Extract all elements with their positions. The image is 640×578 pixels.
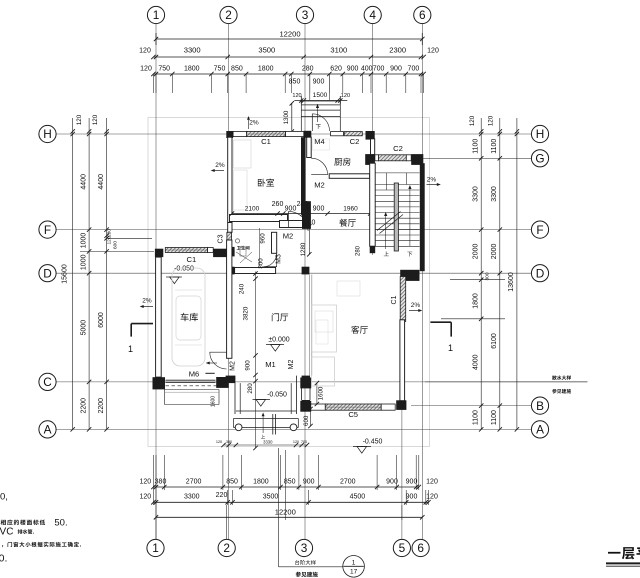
svg-text:3300: 3300 [184,494,200,501]
svg-text:1: 1 [152,541,159,555]
svg-text:2000: 2000 [491,244,498,260]
left dim chain ticks [87,129,91,133]
svg-text:1300: 1300 [283,110,290,124]
bathroom east wall [272,232,277,253]
column living SW bottom [300,401,311,412]
left ext line garage top [80,250,154,252]
svg-text:1: 1 [153,8,160,22]
svg-text:A: A [536,423,544,437]
label living [351,326,359,334]
grid line D horizontal [57,272,532,274]
grid bubble 3 bottom [295,539,312,556]
window C1 living east [400,277,406,322]
svg-text:120: 120 [92,114,99,125]
grid bubble A left [39,421,56,438]
dim line row1 bottom [153,486,418,488]
svg-text:M3: M3 [276,254,283,264]
garage east wall [227,240,232,358]
dim line porch 120 1500 120 [294,100,347,102]
svg-text:1100: 1100 [491,410,498,425]
label xia stair [407,252,412,257]
grid bubble A right [531,421,548,438]
grid bubble 3 top [296,6,313,23]
svg-text:3: 3 [301,541,308,555]
svg-text:380: 380 [226,440,232,444]
svg-text:H: H [43,127,52,141]
svg-text:850: 850 [289,79,301,86]
column stair NE [411,154,423,165]
svg-text:4000: 4000 [473,354,480,370]
svg-text:2%: 2% [142,298,152,305]
svg-text:4500: 4500 [350,494,366,501]
svg-text:3820: 3820 [243,306,250,320]
svg-text:900: 900 [406,479,418,486]
garage west wall [156,257,162,377]
svg-text:900: 900 [406,494,418,501]
svg-text:280: 280 [107,229,113,237]
kitchen west wall upper [307,137,312,157]
grid bubble 2 bottom [218,539,235,556]
svg-text:120: 120 [292,93,301,99]
garage door M6 [166,379,216,381]
living east wall lower [400,320,405,401]
grid bubble 6 bottom [412,539,429,556]
svg-text:120: 120 [426,479,438,486]
dim line bedroom interior [232,213,308,215]
svg-text:2000: 2000 [473,244,480,260]
bedroom east wall [301,137,306,214]
hall dim ticks [253,271,257,275]
hall dim vline [255,272,257,449]
svg-text:1100: 1100 [491,139,498,154]
column living SW top [300,378,311,389]
svg-text:C5: C5 [348,410,358,419]
svg-text:2: 2 [223,541,230,555]
svg-text:C1: C1 [261,137,271,146]
right ext line 300 [450,279,505,281]
svg-text:2200: 2200 [81,398,88,414]
column garage NE [213,249,227,257]
svg-text:H: H [536,127,545,141]
note sanshui text [552,375,557,380]
svg-text:120: 120 [139,479,151,486]
kitchen counter faint [313,139,330,150]
hall-living boundary line [309,275,311,376]
label garage [181,313,189,322]
svg-text:700: 700 [373,66,385,73]
svg-text:380: 380 [155,479,167,486]
porch down arrow [317,104,319,122]
window C2 entry north [344,132,362,136]
svg-text:A: A [44,423,52,437]
porch up arrow [262,414,264,433]
sill west C1 bedroom [233,131,246,136]
column at grid3/H [304,131,312,138]
grid bubble D left [39,265,56,282]
svg-text:300: 300 [485,272,491,280]
dim line 12200 top [156,38,422,40]
svg-text:900: 900 [386,479,398,486]
column at grid2/H [226,131,233,138]
svg-text:120: 120 [139,48,151,55]
svg-text:C2: C2 [393,144,403,153]
svg-text:6000: 6000 [98,312,105,328]
svg-text:15600: 15600 [62,264,69,284]
sill east garage C1 [208,248,214,253]
label shang stair [384,251,389,256]
dim line 600 living [310,409,312,426]
svg-text:1800: 1800 [184,66,200,73]
stair down arrow [409,187,411,246]
section marker 1 left [131,323,153,325]
svg-text:120: 120 [76,114,83,125]
svg-text:C1: C1 [187,255,197,264]
svg-text:D: D [43,266,52,280]
note sanshui line [425,381,588,383]
svg-text:1600: 1600 [211,396,217,407]
svg-text:C: C [43,375,52,389]
column at grid4/H [366,131,375,140]
svg-text:620: 620 [330,66,342,73]
column porch SW [226,376,235,384]
svg-text:900: 900 [313,206,325,213]
svg-text:3100: 3100 [330,46,347,55]
svg-text:2%: 2% [249,120,259,127]
svg-text:1: 1 [448,343,453,353]
svg-text:0,: 0, [0,492,8,503]
car outline faint [172,268,205,366]
bedroom south wall [230,215,288,222]
grid line 6 vertical [421,24,423,540]
svg-text:M6: M6 [189,370,200,379]
dim line dining 1960 [328,213,371,215]
label bathroom tiny [237,246,241,250]
right dim chain ticks [479,129,483,133]
svg-text:2: 2 [225,8,232,22]
living furniture faint [312,305,337,352]
svg-text:C1: C1 [391,295,398,304]
column at D grid3 [302,267,310,275]
svg-text:-0.450: -0.450 [363,439,383,446]
label hall [272,313,279,321]
svg-text:700: 700 [301,440,307,444]
column porch SE top [302,376,310,384]
extension lines below row3 [152,74,154,93]
svg-text:M4: M4 [314,137,325,146]
entry threshold piece [331,132,344,136]
svg-text:600: 600 [303,415,310,426]
svg-text:240: 240 [239,283,246,294]
svg-text:5000: 5000 [81,320,88,336]
svg-text:120: 120 [293,440,299,444]
svg-text:4: 4 [369,8,376,22]
svg-text:B: B [536,399,544,413]
svg-text:VC: VC [0,527,13,538]
label xia porch [316,124,321,129]
bedroom wardrobe faint [234,140,252,168]
roof overhang outline (faint) [148,118,430,447]
grid bubble F right [531,221,548,238]
grid bubble H right [531,125,548,142]
dim line hall 900 [308,213,328,215]
svg-text:280: 280 [247,383,254,394]
bedroom south wall step [280,221,304,228]
grid bubble F left [39,221,56,238]
detail bubble 1/17 [343,556,365,578]
grid bubble 1 bottom [147,539,164,556]
label step detail [295,560,299,565]
svg-text:C2: C2 [350,137,360,146]
svg-text:1500: 1500 [313,92,328,99]
grid bubble C left [39,373,56,390]
svg-text:1100: 1100 [473,139,480,154]
svg-text:2100: 2100 [245,206,260,213]
window C1 garage north [165,248,207,253]
leader line step detail [278,448,280,567]
svg-text:6: 6 [417,541,424,555]
column living SE [396,400,406,410]
left dim chain lines [72,118,74,429]
label bedroom [258,179,266,187]
svg-text:-0.050: -0.050 [267,392,287,399]
svg-text:M2: M2 [283,232,294,241]
bottom ext gridline stubs [155,505,157,540]
svg-text:260: 260 [272,201,284,208]
porch double tick [272,414,274,435]
svg-text:900: 900 [244,360,251,371]
bathroom south wall [235,268,276,274]
svg-text:700: 700 [408,66,420,73]
svg-text:120: 120 [139,494,151,501]
svg-text:1100: 1100 [473,410,480,425]
sill east C1 bedroom [286,131,304,136]
svg-text:120: 120 [341,93,350,99]
svg-text:M2: M2 [288,360,295,370]
svg-text:800: 800 [258,258,265,269]
door M3 bathroom swing [263,253,276,266]
svg-text:1800: 1800 [473,293,480,309]
svg-text:1960: 1960 [343,206,358,213]
svg-text:1000: 1000 [81,254,88,270]
svg-text:0.: 0. [0,553,7,565]
svg-text:120: 120 [427,48,439,55]
svg-text:750: 750 [158,66,170,73]
svg-text:C3: C3 [218,234,225,243]
svg-text:120: 120 [140,66,152,73]
svg-text:17: 17 [350,569,358,576]
grid bubble G right [531,150,548,167]
svg-text:F: F [536,223,543,237]
svg-text:1800: 1800 [253,479,269,486]
porch side walls [234,376,236,414]
grid line A horizontal [57,428,532,430]
grid line 4 vertical [372,24,374,256]
svg-text:3: 3 [302,8,309,22]
dim line row3 top [153,73,423,75]
svg-text:1: 1 [352,560,356,567]
hall-garage door arrow [208,368,218,370]
stair top landing line [375,172,419,174]
svg-text:280: 280 [356,245,362,256]
window C5 living south [325,404,381,410]
dim line row2 top [151,55,155,59]
column stair NW [365,154,375,165]
svg-text:2300: 2300 [389,46,406,55]
bathroom fixture lines [236,252,252,262]
title first floor plan [608,552,621,554]
grid bubble H left [39,125,56,142]
svg-text:600: 600 [113,241,119,249]
window C3 bathroom west [227,232,232,246]
svg-text:D: D [536,266,545,280]
door M2 bedroom swing [288,211,290,227]
svg-text:1280: 1280 [300,242,307,256]
bathroom fixture toilet [235,239,239,243]
sill west of C5 [310,404,326,410]
column garage SE [216,377,229,388]
grid line G horizontal [372,157,532,159]
bedroom west wall [228,137,232,222]
svg-text:M2: M2 [230,361,237,371]
svg-text:1000: 1000 [81,233,88,249]
stair break line [377,212,401,231]
column bathroom west low [227,267,235,275]
column garage NW [155,249,163,257]
label kitchen [334,158,342,165]
porch bottom dim line [224,444,308,446]
grid bubble 1 top [147,6,164,23]
svg-text:850: 850 [231,66,243,73]
svg-text:900: 900 [313,79,325,86]
door M2 kitchen swing [310,158,312,174]
svg-text:1600: 1600 [318,386,325,400]
column garage SW [153,377,166,389]
grid bubble 5 bottom [393,539,410,556]
svg-text:2%: 2% [215,162,225,169]
bottom ext porch line [284,450,286,520]
svg-text:2200: 2200 [98,398,105,414]
svg-text:3300: 3300 [184,46,201,55]
svg-text:3500: 3500 [263,494,279,501]
sill west C2 stair [375,155,379,161]
svg-text:M1: M1 [265,360,276,369]
door M4 swing [311,114,313,131]
svg-text:400: 400 [361,66,373,73]
stair treads [375,189,419,191]
svg-text:-0.050: -0.050 [174,266,194,273]
svg-text:2%: 2% [427,177,437,184]
sill east of C5 [381,404,395,410]
grid bubble D right [531,265,548,282]
grid bubble 6 top [414,6,431,23]
svg-text:1: 1 [128,344,133,354]
svg-text:F: F [44,223,51,237]
grid bubble 2 top [220,6,237,23]
bottom extension lines [152,455,154,490]
dim line 12200 bottom [156,516,422,518]
svg-text:50.: 50. [54,518,67,529]
porch steps bottom [236,410,296,412]
grid line 2 vertical [228,24,230,540]
dim line 1280 vertical [308,227,310,255]
sill east C2 stair [406,155,411,161]
right ext line 1800-4000 [441,318,505,320]
svg-text:850: 850 [226,479,238,486]
grid bubble 4 top [364,6,381,23]
label dining [339,219,347,227]
porch round column right [290,424,297,431]
column bathroom west mid [227,247,235,257]
grid line 3 vertical [304,24,306,540]
window C1 bedroom north [246,131,285,136]
grid line C horizontal [57,381,588,383]
bathroom interior dim vline [259,228,261,266]
label step detail bold [296,572,301,577]
column porch SE bottom [302,400,310,408]
svg-text:280: 280 [302,66,314,73]
grid line 1 vertical [155,24,157,540]
grid line H horizontal [57,133,532,135]
section marker 1 right [430,321,451,323]
svg-text:4400: 4400 [98,174,105,190]
svg-text:M2: M2 [314,181,325,190]
svg-text:5: 5 [399,541,406,555]
svg-text:6100: 6100 [491,333,498,349]
svg-text:900: 900 [303,479,315,486]
svg-text:6: 6 [419,8,426,22]
grid bubble B right [531,397,548,414]
dining west wall black upper [302,201,311,229]
stair east wall [420,163,425,271]
svg-text:2%: 2% [411,302,421,309]
stair up arrow [385,214,387,249]
bathroom north wall stub [228,223,232,233]
svg-text:13600: 13600 [508,272,515,292]
right dim chain lines [480,118,482,429]
svg-text:900: 900 [285,206,297,213]
door M2 garage swing [210,352,227,369]
svg-text:1800: 1800 [258,66,274,73]
svg-text:750: 750 [214,66,226,73]
kitchen east wall [371,139,375,155]
svg-text:4400: 4400 [81,174,88,190]
svg-text:220: 220 [216,492,228,499]
svg-text:3300: 3300 [473,186,480,202]
svg-text:850: 850 [284,479,296,486]
svg-text:120: 120 [107,236,113,244]
svg-text:900: 900 [390,66,402,73]
svg-text:120: 120 [426,494,438,501]
bedroom 2pct north [248,118,250,130]
dim line row2 bottom [153,501,428,503]
garage apron [164,390,166,405]
entry porch steps [301,100,340,102]
svg-text:3500: 3500 [258,46,275,55]
svg-text:2700: 2700 [340,479,356,486]
svg-text:3300: 3300 [491,186,498,202]
svg-text:3330: 3330 [263,440,273,445]
grid line B horizontal [411,405,532,407]
svg-text:G: G [535,152,544,166]
grid line 5 vertical [401,398,403,540]
svg-text:2700: 2700 [186,479,202,486]
column stair SE [400,270,419,281]
svg-text:±0.000: ±0.000 [268,337,289,344]
grid line F horizontal [57,229,532,231]
window C2 stair north [379,155,407,161]
svg-text:120: 120 [216,440,222,444]
svg-text:900: 900 [347,66,359,73]
